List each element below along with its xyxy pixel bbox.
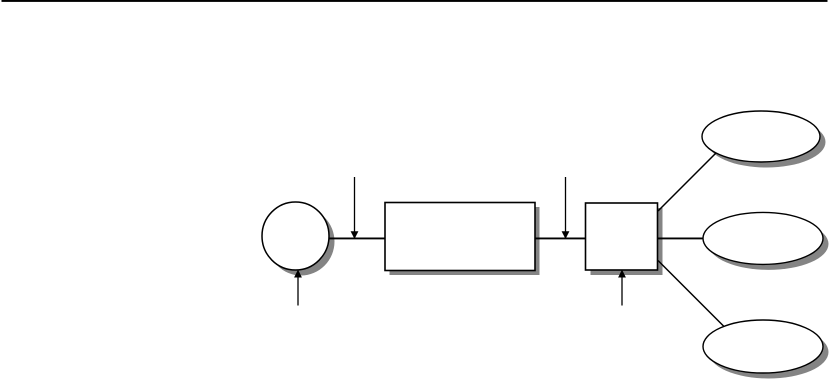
down arrow into wire 2 <box>562 177 570 239</box>
up arrow into square <box>618 270 626 306</box>
rectangle node <box>385 203 535 271</box>
wire rectangle to square <box>534 237 586 239</box>
shadow of circle <box>268 208 335 276</box>
shadow of bottom ellipse <box>709 326 829 379</box>
wire square to middle ellipse <box>657 237 706 239</box>
wire square to bottom ellipse <box>658 261 728 331</box>
square node <box>586 203 658 270</box>
shadow of middle ellipse <box>709 218 829 270</box>
down arrow into wire 1 <box>351 177 359 239</box>
wire circle to rectangle <box>328 237 386 239</box>
shadow of square <box>591 208 663 275</box>
shadow of rectangle <box>390 207 540 275</box>
top ellipse node <box>702 111 820 162</box>
shadow of top ellipse <box>708 117 826 168</box>
bottom ellipse node <box>703 320 823 373</box>
circle node <box>262 202 329 270</box>
wire square to top ellipse <box>658 147 722 211</box>
middle ellipse node <box>703 212 823 264</box>
up arrow into circle <box>294 270 302 306</box>
top rule <box>2 0 828 2</box>
